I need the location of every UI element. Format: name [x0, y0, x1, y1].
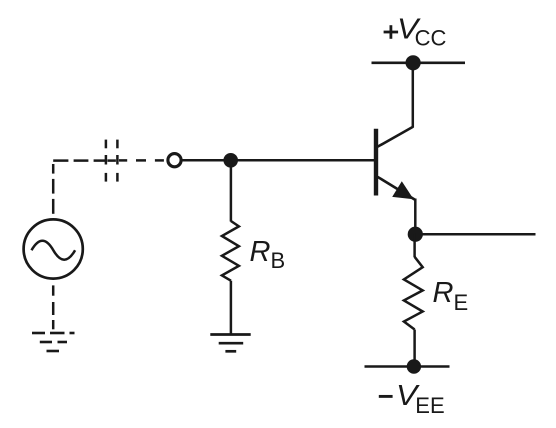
wire: corner to capacitor (dashed horizontal): [53, 159, 105, 162]
svg-text:B: B: [271, 248, 286, 273]
node: collector on VCC rail: [406, 55, 421, 70]
svg-text:R: R: [433, 277, 454, 309]
svg-text:EE: EE: [415, 393, 444, 418]
wire: emitter to output node: [414, 199, 417, 235]
VCC rail: [372, 61, 466, 64]
wire: output (to the right): [415, 233, 535, 236]
ground (source, dashed): [32, 333, 75, 351]
svg-text:E: E: [454, 290, 469, 315]
svg-text:R: R: [250, 236, 271, 268]
wire: base node down to RB: [230, 160, 233, 221]
node: base junction: [223, 153, 238, 168]
wire: capacitor to input terminal (dashed horizontal): [119, 159, 164, 162]
VEE rail: [365, 365, 450, 368]
wire: RB to ground: [230, 281, 233, 335]
capacitor C (coupling, dashed plates): [106, 140, 118, 182]
node: emitter/output junction: [408, 227, 423, 242]
transistor Q1 (npn): [376, 127, 415, 200]
ac source VS: [24, 219, 83, 278]
resistor RE: [404, 257, 423, 330]
label +VCC: [384, 13, 447, 51]
wire: source bottom to ground (dashed vertical): [52, 285, 55, 329]
wire: collector to VCC rail: [412, 63, 415, 128]
label -VEE: [379, 380, 445, 419]
resistor RB: [222, 221, 239, 281]
node: RE on VEE rail: [407, 359, 421, 373]
wire: output node down to RE: [413, 234, 416, 257]
wire: input terminal to transistor base: [181, 159, 374, 162]
wire: source top to corner (dashed vertical): [52, 164, 55, 214]
ground (RB): [210, 335, 250, 352]
wire: RE to VEE rail: [413, 330, 416, 367]
input terminal (open circle): [168, 154, 181, 167]
svg-text:CC: CC: [415, 26, 447, 51]
